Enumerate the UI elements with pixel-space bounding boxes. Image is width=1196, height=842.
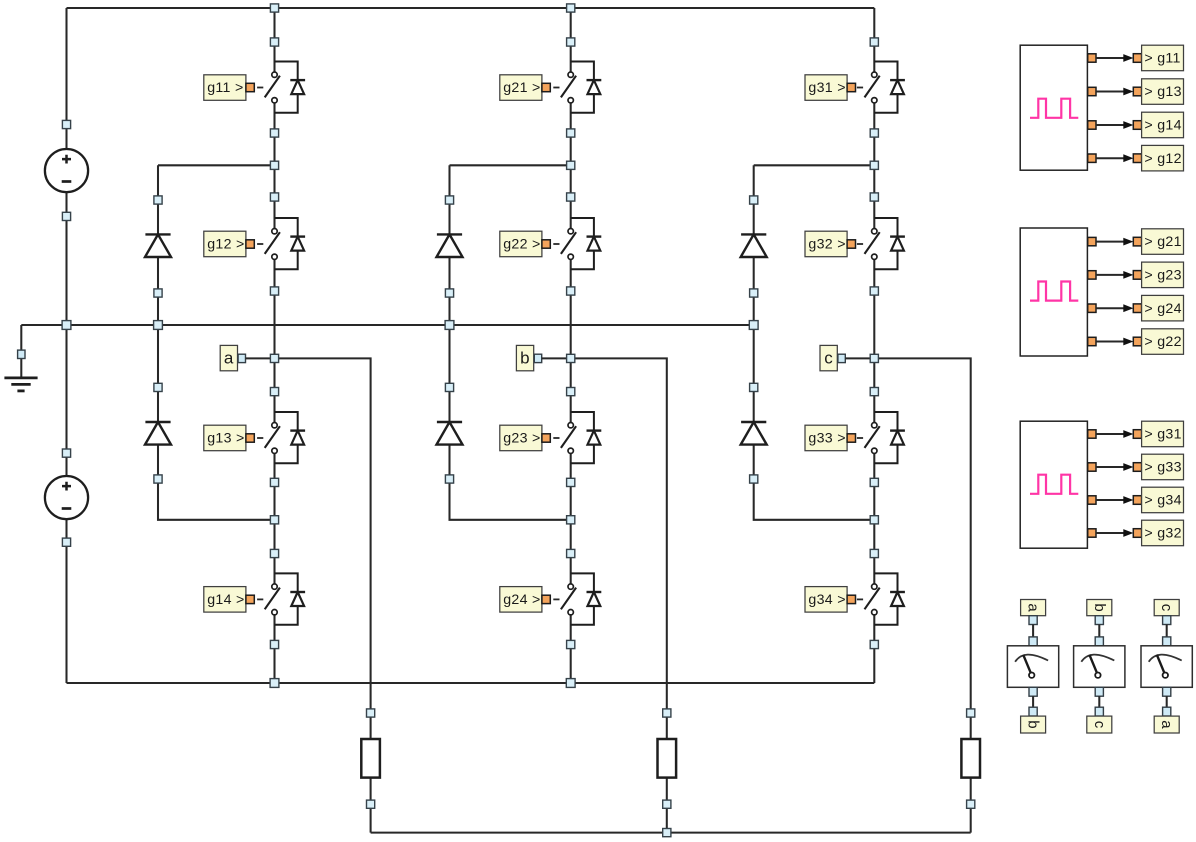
port phase label a <box>238 354 245 362</box>
wire Vbc to c <box>1098 696 1100 707</box>
signal label g32 <box>1096 520 1184 546</box>
clamp diode D25 (upper) <box>437 234 463 257</box>
node leg b y42 <box>567 38 575 46</box>
pulse generator block 1 <box>1020 45 1096 170</box>
voltmeter Vbc <box>1074 637 1125 696</box>
switch g33 with antiparallel diode <box>865 412 905 463</box>
wire Vca to a <box>1166 696 1168 707</box>
node V1 - <box>62 212 70 220</box>
phase label a <box>220 345 237 370</box>
gate dashed wire g32 <box>857 243 863 245</box>
node load a bottom <box>367 800 375 808</box>
phase label b <box>516 345 533 370</box>
ground <box>4 378 37 391</box>
wire leg c vertical <box>873 8 875 683</box>
switch g34 with antiparallel diode <box>865 573 905 624</box>
gate input label g34 <box>805 587 847 613</box>
svg-text:> g12: > g12 <box>1144 151 1181 167</box>
label c (top of Vca) <box>1154 600 1179 625</box>
gate input label g14 <box>204 587 246 613</box>
wire Vab to b <box>1032 696 1034 707</box>
clamp diode D36 (lower) <box>741 422 767 445</box>
node leg a y42 <box>270 38 278 46</box>
gate dashed wire g31 <box>857 87 863 89</box>
phase label c <box>820 345 837 370</box>
pulse generator block 3 <box>1020 421 1096 548</box>
wire leg a vertical <box>273 8 275 683</box>
wire DC source column and bottom DC bus <box>67 8 875 683</box>
svg-text:> g13: > g13 <box>1144 84 1181 100</box>
wire label b to leg <box>542 357 571 359</box>
node leg a y291 <box>270 287 278 295</box>
signal label g11 <box>1096 45 1184 70</box>
node leg b y482 <box>567 478 575 486</box>
node leg b y133 <box>567 129 575 137</box>
port g23 <box>542 434 550 442</box>
node load c top <box>967 709 975 717</box>
node leg c y553 <box>870 549 878 557</box>
wire clamp top tie leg a <box>158 164 275 166</box>
node leg c y519 <box>870 516 878 524</box>
signal label g22 <box>1096 329 1184 355</box>
wire phase a output to load <box>275 358 371 832</box>
resistor load b <box>658 739 677 778</box>
node leg a y391 <box>270 388 278 396</box>
node clamp a cathode upper clamp <box>154 289 162 297</box>
gate input label g24 <box>500 587 542 613</box>
node leg a y519 <box>270 516 278 524</box>
node leg c y197 <box>870 193 878 201</box>
node clamp c neutral junction <box>749 321 758 330</box>
node leg c y165 <box>870 161 878 169</box>
svg-text:> g31: > g31 <box>1144 427 1181 443</box>
svg-text:> g24: > g24 <box>1144 301 1181 317</box>
node leg b y644 <box>567 640 575 648</box>
svg-text:c: c <box>824 349 833 368</box>
label c (bottom of Vbc) <box>1087 707 1112 733</box>
node DC midpoint junction <box>62 321 71 330</box>
node leg a y358 <box>270 354 278 362</box>
svg-text:b: b <box>1091 603 1108 612</box>
voltmeter Vab <box>1007 637 1058 696</box>
pulse generator block 2 <box>1020 228 1096 356</box>
node leg b y165 <box>567 161 575 169</box>
wire load star bus <box>371 832 971 834</box>
node V2 + <box>62 449 70 457</box>
node leg a y165 <box>270 161 278 169</box>
port phase label c <box>838 354 845 362</box>
wire phase c output to load <box>874 358 970 832</box>
gate input label g23 <box>500 425 542 451</box>
switch g32 with antiparallel diode <box>865 218 905 269</box>
port g21 <box>542 83 550 91</box>
gate input label g32 <box>805 231 847 257</box>
svg-text:a: a <box>224 349 234 368</box>
gate dashed wire g33 <box>857 437 863 439</box>
svg-text:> g34: > g34 <box>1144 493 1181 509</box>
wire ground stub <box>20 325 22 378</box>
gate dashed wire g34 <box>857 598 863 600</box>
svg-text:> g14: > g14 <box>1144 118 1181 134</box>
wire label a to leg <box>246 357 275 359</box>
svg-text:c: c <box>1158 604 1175 612</box>
node leg b y197 <box>567 193 575 201</box>
signal label g34 <box>1096 487 1184 513</box>
clamp diode D15 (upper) <box>145 234 171 257</box>
gate input label g21 <box>500 75 542 101</box>
wire clamp column and bottom tie leg b <box>450 165 571 520</box>
node load b bottom <box>663 800 671 808</box>
port phase label b <box>534 354 541 362</box>
signal label g33 <box>1096 454 1184 480</box>
svg-text:> g11: > g11 <box>1144 51 1180 67</box>
gate input label g12 <box>204 231 246 257</box>
port g34 <box>847 595 855 603</box>
label b (top of Vbc) <box>1087 600 1112 625</box>
node leg b y519 <box>567 516 575 524</box>
node leg a y644 <box>270 640 278 648</box>
switch g11 with antiparallel diode <box>265 62 305 113</box>
node leg a bottom bus junction <box>270 679 279 688</box>
node clamp c cathode upper clamp <box>750 289 758 297</box>
node clamp a neutral junction <box>154 321 163 330</box>
node load star junction <box>663 829 671 837</box>
svg-text:g11 >: g11 > <box>207 80 243 96</box>
port g22 <box>542 240 550 248</box>
node clamp b anode upper clamp <box>445 196 453 204</box>
clamp diode D26 (lower) <box>437 422 463 445</box>
voltmeter Vca <box>1141 637 1192 696</box>
node leg a y553 <box>270 549 278 557</box>
node clamp a anode upper clamp <box>154 196 162 204</box>
svg-text:> g23: > g23 <box>1144 268 1181 284</box>
svg-text:g23 >: g23 > <box>503 431 540 447</box>
port g13 <box>246 434 254 442</box>
wire label c to leg <box>845 357 874 359</box>
node clamp c anode upper clamp <box>750 196 758 204</box>
gate dashed wire g13 <box>257 437 263 439</box>
svg-text:g13 >: g13 > <box>207 431 244 447</box>
svg-text:> g22: > g22 <box>1144 334 1181 350</box>
node leg b y358 <box>567 354 575 362</box>
node leg a y197 <box>270 193 278 201</box>
svg-text:g31 >: g31 > <box>808 80 845 96</box>
clamp diode D16 (lower) <box>145 422 171 445</box>
node leg b bottom bus junction <box>566 679 575 688</box>
node clamp c anode lower clamp <box>750 383 758 391</box>
node clamp b cathode upper clamp <box>445 289 453 297</box>
svg-text:a: a <box>1025 603 1042 612</box>
port g14 <box>246 595 254 603</box>
voltage source V2 (lower) <box>45 476 88 519</box>
resistor load a <box>361 739 380 778</box>
node clamp b anode lower clamp <box>445 383 453 391</box>
label a (top of Vab) <box>1021 600 1046 625</box>
svg-text:g33 >: g33 > <box>808 431 845 447</box>
node V1 + <box>62 120 70 128</box>
svg-text:g21 >: g21 > <box>503 80 540 96</box>
switch g21 with antiparallel diode <box>561 62 601 113</box>
gate dashed wire g21 <box>553 87 559 89</box>
node leg b y8 <box>567 4 575 12</box>
node leg c y42 <box>870 38 878 46</box>
wire clamp column and bottom tie leg a <box>158 165 275 520</box>
port g33 <box>847 434 855 442</box>
node clamp b cathode lower clamp <box>445 475 453 483</box>
svg-text:g12 >: g12 > <box>207 237 244 253</box>
wire leg b vertical <box>570 8 572 683</box>
node clamp c cathode lower clamp <box>750 475 758 483</box>
gate input label g33 <box>805 425 847 451</box>
svg-text:g22 >: g22 > <box>503 237 540 253</box>
switch g12 with antiparallel diode <box>265 218 305 269</box>
port ground terminal <box>18 350 25 358</box>
node clamp a cathode lower clamp <box>154 475 162 483</box>
switch g24 with antiparallel diode <box>561 573 601 624</box>
node leg a y8 <box>270 4 278 12</box>
wire b to Vbc <box>1098 625 1100 637</box>
gate input label g22 <box>500 231 542 257</box>
wire phase b output to load <box>571 358 667 832</box>
clamp diode D35 (upper) <box>741 234 767 257</box>
node clamp a anode lower clamp <box>154 383 162 391</box>
node V2 - <box>62 538 70 546</box>
svg-text:b: b <box>1025 720 1042 729</box>
svg-text:> g32: > g32 <box>1144 526 1181 542</box>
node leg c y291 <box>870 287 878 295</box>
gate dashed wire g24 <box>553 598 559 600</box>
node clamp b neutral junction <box>445 321 454 330</box>
svg-text:> g21: > g21 <box>1144 234 1181 250</box>
gate dashed wire g11 <box>257 87 263 89</box>
port g12 <box>246 240 254 248</box>
signal label g14 <box>1096 112 1184 138</box>
wire neutral mid bus <box>21 324 753 326</box>
svg-text:g14 >: g14 > <box>207 592 244 608</box>
signal label g21 <box>1096 229 1184 255</box>
svg-text:c: c <box>1091 721 1108 729</box>
switch g31 with antiparallel diode <box>865 62 905 113</box>
wire c to Vca <box>1166 625 1168 637</box>
port g31 <box>847 83 855 91</box>
gate dashed wire g12 <box>257 243 263 245</box>
svg-text:g32 >: g32 > <box>808 237 845 253</box>
port g32 <box>847 240 855 248</box>
label b (bottom of Vab) <box>1021 707 1046 733</box>
signal label g31 <box>1096 421 1184 447</box>
node leg c y391 <box>870 388 878 396</box>
voltage source V1 (upper) <box>45 149 88 192</box>
wire top DC bus <box>67 7 875 9</box>
node leg b y291 <box>567 287 575 295</box>
wire clamp top tie leg b <box>450 164 571 166</box>
svg-text:g24 >: g24 > <box>503 592 540 608</box>
node leg c y482 <box>870 478 878 486</box>
signal label g12 <box>1096 145 1184 171</box>
node leg c y133 <box>870 129 878 137</box>
gate dashed wire g23 <box>553 437 559 439</box>
node load a top <box>367 709 375 717</box>
node leg a y482 <box>270 478 278 486</box>
node load b top <box>663 709 671 717</box>
node leg c y644 <box>870 640 878 648</box>
svg-text:a: a <box>1158 720 1175 729</box>
gate dashed wire g22 <box>553 243 559 245</box>
wire a to Vab <box>1032 625 1034 637</box>
switch g23 with antiparallel diode <box>561 412 601 463</box>
wire clamp top tie leg c <box>754 164 875 166</box>
svg-text:> g33: > g33 <box>1144 460 1181 476</box>
node leg b y391 <box>567 388 575 396</box>
gate input label g11 <box>204 75 246 101</box>
label a (bottom of Vca) <box>1154 707 1179 733</box>
gate input label g13 <box>204 425 246 451</box>
gate dashed wire g14 <box>257 598 263 600</box>
resistor load c <box>961 739 980 778</box>
signal label g24 <box>1096 295 1184 321</box>
svg-text:b: b <box>520 349 530 368</box>
switch g14 with antiparallel diode <box>265 573 305 624</box>
node leg a y133 <box>270 129 278 137</box>
signal label g13 <box>1096 79 1184 105</box>
gate input label g31 <box>805 75 847 101</box>
switch g22 with antiparallel diode <box>561 218 601 269</box>
wire clamp column and bottom tie leg c <box>754 165 875 520</box>
node leg b y553 <box>567 549 575 557</box>
signal label g23 <box>1096 262 1184 288</box>
svg-text:g34 >: g34 > <box>808 592 845 608</box>
node load c bottom <box>967 800 975 808</box>
node leg c y358 <box>870 354 878 362</box>
switch g13 with antiparallel diode <box>265 412 305 463</box>
port g11 <box>246 83 254 91</box>
port g24 <box>542 595 550 603</box>
